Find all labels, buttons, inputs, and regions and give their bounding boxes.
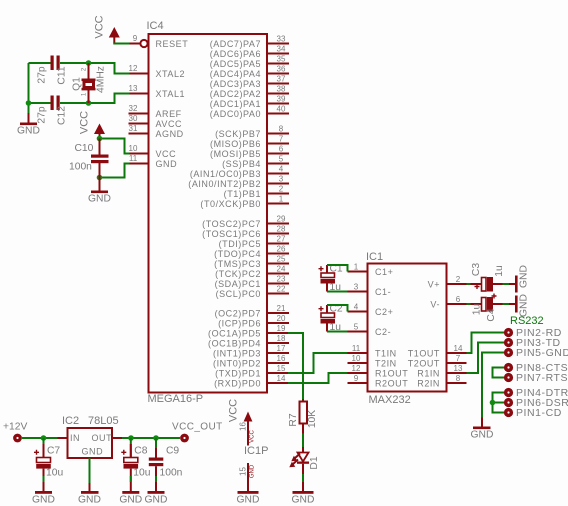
svg-text:37: 37 bbox=[277, 75, 286, 84]
svg-text:(OC2)PD7: (OC2)PD7 bbox=[215, 309, 261, 319]
IC4 pin 22 (SCL)PC0 bbox=[216, 285, 289, 299]
svg-text:7: 7 bbox=[279, 135, 284, 144]
svg-text:VCC: VCC bbox=[79, 111, 91, 134]
svg-text:D1: D1 bbox=[309, 456, 320, 469]
IC4 pin 19 (OC1A)PD5 bbox=[208, 324, 289, 338]
svg-text:78L05: 78L05 bbox=[88, 415, 119, 427]
power symbol VCC (C10) bbox=[79, 111, 106, 139]
svg-text:27: 27 bbox=[277, 235, 286, 244]
svg-text:GND: GND bbox=[237, 495, 260, 506]
svg-text:11: 11 bbox=[352, 344, 361, 353]
svg-text:38: 38 bbox=[277, 85, 286, 94]
svg-text:14: 14 bbox=[454, 344, 463, 353]
node VCC_OUT pad bbox=[172, 422, 223, 443]
svg-text:20: 20 bbox=[277, 314, 286, 323]
svg-text:(OC1A)PD5: (OC1A)PD5 bbox=[208, 329, 261, 339]
capacitor C10 100n bbox=[69, 139, 109, 178]
wire C2 top to MAX232 bbox=[327, 305, 348, 312]
IC4 pin 3 (AIN0/INT2)PB2 bbox=[188, 175, 289, 189]
svg-text:GND: GND bbox=[519, 265, 530, 288]
capacitor C1 1u polarized bbox=[319, 264, 343, 294]
svg-text:25: 25 bbox=[277, 255, 286, 264]
svg-text:(ADC1)PA1: (ADC1)PA1 bbox=[210, 99, 261, 109]
svg-text:IC4: IC4 bbox=[147, 20, 164, 32]
svg-text:GND: GND bbox=[156, 159, 178, 169]
svg-text:GND: GND bbox=[145, 495, 168, 506]
svg-text:(ICP)PD6: (ICP)PD6 bbox=[218, 319, 261, 329]
node PIN5-GND pad bbox=[504, 347, 568, 359]
IC4 pin 16 (INT0)PD2 bbox=[213, 354, 289, 368]
svg-text:(TOSC2)PC7: (TOSC2)PC7 bbox=[202, 219, 261, 229]
svg-text:6: 6 bbox=[279, 145, 284, 154]
voltage regulator IC2 78L05 bbox=[58, 428, 123, 458]
svg-text:12: 12 bbox=[352, 364, 361, 373]
ground symbol below C9 bbox=[145, 491, 168, 506]
ground symbol below D1 bbox=[292, 482, 315, 506]
IC4 pin 21 (OC2)PD7 bbox=[215, 304, 289, 318]
svg-text:(OC1B)PD4: (OC1B)PD4 bbox=[208, 339, 261, 349]
svg-text:18: 18 bbox=[277, 334, 286, 343]
IC1 pin 1 C1+ bbox=[348, 263, 394, 278]
svg-text:AREF: AREF bbox=[156, 109, 182, 119]
power symbol VCC (IC1P pin16) bbox=[228, 399, 256, 446]
IC1 pin 5 C2- bbox=[348, 323, 392, 338]
svg-text:GND: GND bbox=[88, 194, 111, 205]
svg-text:R2IN: R2IN bbox=[417, 379, 440, 389]
node PIN7-RTS pad bbox=[504, 372, 568, 384]
svg-text:PIN7-RTS: PIN7-RTS bbox=[516, 372, 568, 384]
svg-text:4MHz: 4MHz bbox=[96, 66, 107, 93]
svg-text:6: 6 bbox=[456, 295, 461, 304]
IC4 pin 35 (ADC5)PA5 bbox=[210, 55, 289, 69]
svg-text:GND: GND bbox=[292, 495, 315, 506]
IC4 pin 18 (OC1B)PD4 bbox=[208, 334, 289, 348]
wire C1 bottom to MAX232 bbox=[327, 291, 348, 293]
wire loopback PIN4-DTR / PIN6-DSR / PIN1-CD bbox=[493, 393, 505, 413]
IC1 pin 4 C2+ bbox=[348, 303, 394, 318]
svg-text:39: 39 bbox=[277, 95, 286, 104]
junction C9 tap bbox=[153, 435, 159, 441]
svg-text:(TOSC1)PC6: (TOSC1)PC6 bbox=[202, 229, 261, 239]
svg-text:VCC: VCC bbox=[250, 430, 256, 443]
IC4 pin 31 AGND bbox=[129, 124, 184, 139]
svg-text:C2-: C2- bbox=[375, 327, 391, 337]
IC4 pin 7 (MISO)PB6 bbox=[210, 135, 289, 149]
IC4 pin 32 AREF bbox=[129, 104, 182, 119]
IC4 pin 28 (TOSC1)PC6 bbox=[202, 225, 289, 239]
svg-text:C9: C9 bbox=[166, 446, 179, 457]
IC4 pin 13 XTAL1 bbox=[129, 84, 186, 99]
svg-text:10u: 10u bbox=[46, 468, 63, 479]
junction C7 tap bbox=[41, 435, 47, 441]
svg-text:C12: C12 bbox=[57, 106, 68, 125]
junction C10 bottom bbox=[97, 175, 103, 181]
svg-text:7: 7 bbox=[456, 354, 461, 363]
svg-text:24: 24 bbox=[277, 265, 286, 274]
svg-text:5: 5 bbox=[279, 155, 284, 164]
svg-text:9: 9 bbox=[133, 34, 138, 43]
svg-text:RESET: RESET bbox=[156, 39, 189, 49]
svg-text:11: 11 bbox=[129, 154, 138, 163]
IC1 pin 6 V- bbox=[430, 295, 466, 310]
svg-text:(ADC6)PA6: (ADC6)PA6 bbox=[210, 49, 261, 59]
IC1 pin 7 T2OUT bbox=[408, 354, 467, 369]
svg-text:(TXD)PD1: (TXD)PD1 bbox=[215, 369, 261, 379]
ground symbol below C7 bbox=[32, 491, 55, 506]
IC4 pin 12 XTAL2 bbox=[129, 64, 186, 79]
svg-text:XTAL1: XTAL1 bbox=[156, 89, 186, 99]
svg-text:C8: C8 bbox=[134, 446, 147, 457]
wire R7 to D1 bbox=[302, 434, 304, 448]
svg-text:IN: IN bbox=[70, 433, 80, 443]
svg-text:VCC: VCC bbox=[94, 15, 106, 38]
IC4 pin 2 (T1)PB1 bbox=[224, 185, 289, 199]
svg-text:1: 1 bbox=[279, 195, 284, 204]
IC4 pin 8 (SCK)PB7 bbox=[215, 125, 289, 139]
svg-text:16: 16 bbox=[239, 422, 248, 431]
IC4 pin 26 (TDO)PC4 bbox=[214, 245, 289, 259]
capacitor C4 1u polarized bbox=[471, 294, 504, 322]
ground symbol below PIN5-GND bbox=[471, 418, 494, 441]
capacitor C12 27p bbox=[37, 96, 68, 125]
IC1 pin 13 R1IN bbox=[417, 364, 466, 379]
node PIN4-DTR pad bbox=[504, 387, 568, 399]
svg-text:(SCL)PC0: (SCL)PC0 bbox=[216, 289, 261, 299]
svg-text:(ADC7)PA7: (ADC7)PA7 bbox=[210, 39, 261, 49]
junction C8 tap bbox=[128, 435, 134, 441]
svg-text:10: 10 bbox=[129, 144, 138, 153]
IC4 pin 14 (RXD)PD0 bbox=[214, 374, 289, 388]
wire PD1 pin15 TXD to MAX232 T1IN pin11 bbox=[288, 353, 348, 373]
svg-text:GND: GND bbox=[32, 495, 55, 506]
node PIN1-CD pad bbox=[504, 407, 562, 419]
svg-text:T1IN: T1IN bbox=[375, 349, 397, 359]
LED D1 bbox=[289, 447, 320, 474]
svg-text:21: 21 bbox=[277, 304, 286, 313]
svg-text:33: 33 bbox=[277, 35, 286, 44]
wire left bus joining C11/C12 to GND bbox=[28, 63, 30, 113]
ground symbol below C8 bbox=[119, 491, 142, 506]
wire PD5 pin19 to R7 bbox=[288, 333, 303, 400]
IC4 pin 30 AVCC bbox=[129, 114, 183, 129]
svg-text:R1OUT: R1OUT bbox=[375, 369, 408, 379]
wire IC2 OUT to VCC_OUT pad bbox=[122, 437, 180, 439]
IC4 pin 37 (ADC3)PA3 bbox=[210, 75, 289, 89]
svg-text:4: 4 bbox=[354, 303, 359, 312]
svg-text:(ADC4)PA4: (ADC4)PA4 bbox=[210, 69, 261, 79]
IC1 pin 2 V+ bbox=[428, 275, 467, 290]
svg-text:C4: C4 bbox=[486, 308, 497, 321]
wire +12V to IC2 IN bbox=[22, 437, 58, 439]
ground symbol below C10 bbox=[88, 178, 111, 205]
capacitor C11 27p bbox=[37, 56, 68, 85]
junction C10 top bbox=[97, 136, 103, 142]
junction crystal top bbox=[86, 60, 92, 66]
wire net XTAL2: pin12 to crystal top and C11 bbox=[29, 63, 130, 74]
svg-text:36: 36 bbox=[277, 65, 286, 74]
IC4 pin 4 (AIN1/OC0)PB3 bbox=[190, 165, 289, 179]
svg-text:(TDO)PC4: (TDO)PC4 bbox=[214, 249, 261, 259]
svg-text:8: 8 bbox=[279, 125, 284, 134]
svg-text:VCC: VCC bbox=[228, 399, 240, 422]
wire VCC to RESET pin 9 bbox=[113, 43, 129, 45]
capacitor C3 1u polarized bbox=[471, 263, 506, 292]
svg-text:(T0/XCK)PB0: (T0/XCK)PB0 bbox=[200, 199, 261, 209]
IC4 pin 29 (TOSC2)PC7 bbox=[202, 215, 289, 229]
svg-text:C3: C3 bbox=[471, 263, 482, 276]
svg-text:8: 8 bbox=[456, 374, 461, 383]
svg-text:12: 12 bbox=[129, 64, 138, 73]
svg-text:3: 3 bbox=[354, 283, 359, 292]
IC4 pin 23 (SDA)PC1 bbox=[215, 275, 289, 289]
svg-text:(ADC3)PA3: (ADC3)PA3 bbox=[210, 79, 261, 89]
IC4 pin 34 (ADC6)PA6 bbox=[210, 45, 289, 59]
svg-text:+12V: +12V bbox=[3, 422, 27, 433]
node PIN3-TD pad bbox=[504, 337, 561, 349]
svg-text:30: 30 bbox=[129, 114, 138, 123]
IC4 pin 40 (ADC0)PA0 bbox=[210, 105, 289, 119]
svg-text:(INT1)PD3: (INT1)PD3 bbox=[213, 349, 261, 359]
svg-text:27p: 27p bbox=[37, 66, 48, 83]
IC U2: IC1 MAX232 body bbox=[368, 264, 447, 392]
IC4 pin 1 (T0/XCK)PB0 bbox=[200, 195, 289, 209]
svg-text:100n: 100n bbox=[69, 162, 92, 173]
junction crystal bottom bbox=[86, 100, 92, 106]
svg-text:10K: 10K bbox=[307, 410, 318, 428]
wire C1 top to MAX232 bbox=[327, 265, 348, 272]
wire PIN5-GND to ground bbox=[482, 353, 505, 418]
wire V- pin6 to C4 bbox=[467, 303, 472, 305]
svg-text:OUT: OUT bbox=[92, 433, 113, 443]
svg-text:XTAL2: XTAL2 bbox=[156, 69, 186, 79]
junction left bus at C12 bbox=[26, 100, 32, 106]
wire C4 to GND bbox=[503, 303, 510, 305]
svg-text:GND: GND bbox=[78, 495, 101, 506]
wire IC2 GND down bbox=[89, 458, 91, 483]
node PIN8-CTS pad bbox=[504, 362, 568, 374]
svg-text:(SDA)PC1: (SDA)PC1 bbox=[215, 279, 261, 289]
node PIN6-DSR pad bbox=[504, 397, 568, 409]
svg-text:5: 5 bbox=[354, 323, 359, 332]
IC1 pin 14 T1OUT bbox=[408, 344, 467, 359]
capacitor C7 10u polarized bbox=[34, 438, 63, 492]
IC1 pin 3 C1- bbox=[348, 283, 392, 298]
svg-text:(SCK)PB7: (SCK)PB7 bbox=[215, 129, 261, 139]
svg-text:28: 28 bbox=[277, 225, 286, 234]
svg-text:15: 15 bbox=[277, 364, 286, 373]
svg-text:14: 14 bbox=[277, 374, 286, 383]
svg-text:RS232: RS232 bbox=[510, 315, 544, 327]
svg-text:10u: 10u bbox=[133, 468, 150, 479]
svg-text:4: 4 bbox=[279, 165, 284, 174]
svg-text:35: 35 bbox=[277, 55, 286, 64]
svg-text:C2+: C2+ bbox=[375, 307, 393, 317]
svg-text:23: 23 bbox=[277, 275, 286, 284]
svg-text:1u: 1u bbox=[494, 265, 505, 277]
wire loopback PIN8-CTS to PIN7-RTS bbox=[493, 368, 505, 378]
svg-text:C10: C10 bbox=[75, 143, 94, 154]
svg-text:3: 3 bbox=[279, 175, 284, 184]
resistor R7 10K bbox=[288, 399, 318, 434]
IC4 pin 38 (ADC2)PA2 bbox=[210, 85, 289, 99]
svg-text:R1IN: R1IN bbox=[417, 369, 440, 379]
svg-text:40: 40 bbox=[277, 105, 286, 114]
IC1 pin 9 R2OUT bbox=[348, 374, 409, 389]
svg-text:R2OUT: R2OUT bbox=[375, 379, 408, 389]
svg-text:GND: GND bbox=[471, 430, 494, 441]
svg-text:Q1: Q1 bbox=[72, 77, 83, 91]
svg-text:C1-: C1- bbox=[375, 287, 391, 297]
svg-text:IC1P: IC1P bbox=[244, 445, 268, 457]
svg-text:T2IN: T2IN bbox=[375, 359, 397, 369]
IC4 pin 15 (TXD)PD1 bbox=[215, 364, 289, 378]
svg-text:32: 32 bbox=[129, 104, 138, 113]
svg-text:(TDI)PC5: (TDI)PC5 bbox=[219, 239, 261, 249]
svg-text:GND: GND bbox=[82, 447, 104, 457]
svg-text:9: 9 bbox=[354, 374, 359, 383]
svg-text:C1+: C1+ bbox=[375, 267, 393, 277]
svg-text:(ADC2)PA2: (ADC2)PA2 bbox=[210, 89, 261, 99]
svg-text:2: 2 bbox=[279, 185, 284, 194]
svg-text:VCC_OUT: VCC_OUT bbox=[172, 422, 223, 433]
wire C2 bottom to MAX232 bbox=[327, 331, 348, 333]
svg-text:VCC: VCC bbox=[156, 149, 177, 159]
svg-text:34: 34 bbox=[277, 45, 286, 54]
svg-text:AGND: AGND bbox=[156, 129, 184, 139]
capacitor C8 10u polarized bbox=[121, 438, 150, 492]
svg-text:100n: 100n bbox=[160, 468, 183, 479]
svg-text:(AIN1/OC0)PB3: (AIN1/OC0)PB3 bbox=[190, 169, 261, 179]
svg-text:GND: GND bbox=[519, 294, 530, 317]
ground symbol below crystal bus bbox=[17, 113, 40, 137]
svg-text:MAX232: MAX232 bbox=[369, 394, 411, 406]
svg-text:IC1: IC1 bbox=[366, 251, 383, 263]
svg-text:2: 2 bbox=[456, 275, 461, 284]
svg-text:10: 10 bbox=[352, 354, 361, 363]
svg-text:MEGA16-P: MEGA16-P bbox=[148, 393, 204, 405]
IC4 pin 33 (ADC7)PA7 bbox=[210, 35, 289, 49]
wire C3 to GND bbox=[503, 283, 510, 285]
IC4 pin 11 GND bbox=[129, 154, 178, 169]
svg-text:PIN5-GND: PIN5-GND bbox=[516, 347, 568, 359]
ground symbol IC1P bbox=[237, 491, 260, 506]
junction DSR tie bbox=[490, 400, 496, 406]
power symbol VCC (reset pull) bbox=[94, 15, 120, 43]
svg-text:PIN1-CD: PIN1-CD bbox=[516, 407, 562, 419]
IC4 pin 10 VCC bbox=[129, 144, 177, 159]
capacitor C9 100n bbox=[149, 438, 183, 492]
svg-text:1: 1 bbox=[354, 263, 359, 272]
IC1 pin 11 T1IN bbox=[348, 344, 397, 359]
svg-text:26: 26 bbox=[277, 245, 286, 254]
IC1 pin 10 T2IN bbox=[348, 354, 397, 369]
IC4 pin 27 (TDI)PC5 bbox=[219, 235, 289, 249]
wire net XTAL1: pin13 to crystal bottom and C12 bbox=[29, 94, 130, 104]
svg-text:13: 13 bbox=[129, 84, 138, 93]
wire PD0 pin14 RXD to MAX232 R1OUT pin12 bbox=[288, 373, 348, 383]
svg-text:27p: 27p bbox=[37, 106, 48, 123]
IC4 pin 20 (ICP)PD6 bbox=[218, 314, 289, 328]
wire D1 to GND bbox=[302, 474, 304, 482]
capacitor C2 1u polarized bbox=[319, 304, 343, 334]
IC4 pin 36 (ADC4)PA4 bbox=[210, 65, 289, 79]
IC4 pin 9 RESET with inversion bubble bbox=[129, 34, 189, 49]
node PIN2-RD pad bbox=[504, 327, 562, 339]
svg-text:T2OUT: T2OUT bbox=[408, 359, 440, 369]
wire V+ pin2 to C3 bbox=[467, 283, 472, 285]
wire VCC to IC4 pin10 VCC bbox=[100, 139, 130, 154]
svg-text:(MISO)PB6: (MISO)PB6 bbox=[210, 139, 261, 149]
ground symbol at C3 (rotated) bbox=[509, 265, 530, 292]
svg-text:C11: C11 bbox=[57, 66, 68, 84]
svg-text:C7: C7 bbox=[47, 446, 60, 457]
svg-text:(MOSI)PB5: (MOSI)PB5 bbox=[210, 149, 261, 159]
svg-text:15: 15 bbox=[239, 467, 248, 476]
svg-text:GND: GND bbox=[17, 126, 40, 137]
svg-text:(AIN0/INT2)PB2: (AIN0/INT2)PB2 bbox=[188, 179, 261, 189]
svg-text:(TMS)PC3: (TMS)PC3 bbox=[214, 259, 261, 269]
IC4 pin 39 (ADC1)PA1 bbox=[210, 95, 289, 109]
svg-text:31: 31 bbox=[129, 124, 138, 133]
ground symbol IC2 bbox=[78, 483, 101, 506]
svg-text:(RXD)PD0: (RXD)PD0 bbox=[214, 379, 261, 389]
svg-text:29: 29 bbox=[277, 215, 286, 224]
svg-text:1u: 1u bbox=[472, 304, 483, 316]
wire R1IN pin13 to PIN3-TD bbox=[467, 343, 505, 374]
svg-text:IC2: IC2 bbox=[62, 415, 79, 427]
svg-text:GND: GND bbox=[119, 495, 142, 506]
svg-text:V+: V+ bbox=[428, 280, 440, 290]
svg-text:(ADC5)PA5: (ADC5)PA5 bbox=[210, 59, 261, 69]
IC1 pin 8 R2IN bbox=[417, 374, 466, 389]
svg-text:22: 22 bbox=[277, 285, 286, 294]
IC1P pin15 GND lead bbox=[239, 463, 256, 492]
IC U1: IC4 MEGA16-P microcontroller body bbox=[149, 34, 268, 393]
IC4 pin 5 (SS)PB4 bbox=[222, 155, 289, 169]
wire C10 bottom to IC4 pin11 GND bbox=[100, 164, 130, 178]
svg-text:T1OUT: T1OUT bbox=[408, 349, 440, 359]
svg-text:(T1)PB1: (T1)PB1 bbox=[224, 189, 261, 199]
svg-text:GND: GND bbox=[250, 464, 256, 478]
svg-text:(ADC0)PA0: (ADC0)PA0 bbox=[210, 109, 261, 119]
svg-text:V-: V- bbox=[430, 300, 440, 310]
wire T1OUT pin14 to PIN2-RD bbox=[467, 333, 505, 354]
svg-text:13: 13 bbox=[454, 364, 463, 373]
svg-text:(SS)PB4: (SS)PB4 bbox=[222, 159, 261, 169]
IC4 pin 17 (INT1)PD3 bbox=[213, 344, 289, 358]
crystal Q1 4MHz bbox=[72, 63, 107, 103]
svg-text:R7: R7 bbox=[288, 413, 299, 426]
ground symbol at C4 (rotated) bbox=[509, 294, 530, 317]
svg-text:17: 17 bbox=[277, 344, 286, 353]
node +12V input pad bbox=[3, 422, 27, 443]
svg-text:16: 16 bbox=[277, 354, 286, 363]
IC4 pin 6 (MOSI)PB5 bbox=[210, 145, 289, 159]
IC1 pin 12 R1OUT bbox=[348, 364, 409, 379]
IC4 pin 25 (TMS)PC3 bbox=[214, 255, 289, 269]
svg-text:19: 19 bbox=[277, 324, 286, 333]
svg-text:(TCK)PC2: (TCK)PC2 bbox=[215, 269, 261, 279]
svg-text:(INT0)PD2: (INT0)PD2 bbox=[213, 359, 261, 369]
svg-text:AVCC: AVCC bbox=[156, 119, 183, 129]
IC4 pin 24 (TCK)PC2 bbox=[215, 265, 289, 279]
